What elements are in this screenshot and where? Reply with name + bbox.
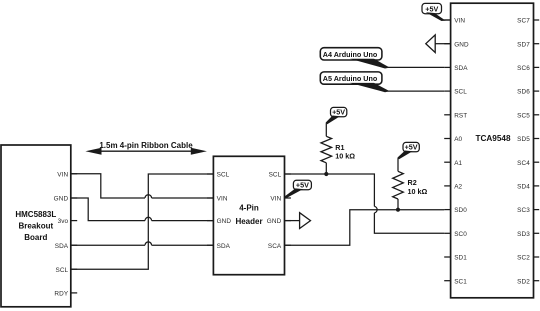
+5V power flag at TCA9548 VIN (422, 3, 446, 21)
svg-text:SD1: SD1 (454, 255, 467, 262)
pin RDY (HMC5883L) (54, 291, 77, 298)
wire hop on GND wire over SCL vertical (145, 217, 152, 220)
svg-text:10 kΩ: 10 kΩ (408, 187, 428, 196)
svg-text:TCA9548: TCA9548 (475, 134, 510, 143)
+5V power flag at R2 (397, 142, 419, 159)
pin SD0 left (TCA9548) (444, 207, 467, 214)
ground arrow at header GND (285, 213, 311, 229)
pin SD3 right (TCA9548) (517, 231, 539, 238)
+5V power flag at header VIN (284, 180, 311, 198)
svg-text:SDA: SDA (217, 243, 231, 250)
pin SCA right (4-pin header) (268, 243, 291, 250)
pin VIN (HMC5883L) (57, 171, 77, 178)
svg-text:A1: A1 (454, 160, 462, 167)
4-pin header title (235, 204, 262, 227)
ground arrow at TCA9548 GND (426, 35, 451, 53)
svg-text:3vo: 3vo (58, 218, 69, 225)
svg-text:SD6: SD6 (517, 89, 530, 96)
svg-text:+5V: +5V (332, 108, 345, 117)
svg-text:SC3: SC3 (517, 207, 530, 214)
pin 3vo (HMC5883L) (58, 218, 78, 225)
pin GND right (4-pin header) (267, 218, 291, 225)
pin RST left (TCA9548) (444, 112, 467, 119)
svg-text:SD4: SD4 (517, 184, 530, 191)
svg-text:Header: Header (235, 217, 262, 226)
svg-text:VIN: VIN (217, 196, 228, 203)
pin SC1 left (TCA9548) (444, 278, 467, 285)
wire hop on VIN wire over SCL vertical (145, 195, 152, 198)
net flag A4 Arduino Uno (SDA) (320, 48, 390, 69)
wire +5V flag to TCA9548 VIN (443, 19, 451, 21)
svg-text:+5V: +5V (405, 143, 418, 152)
junction dot R2 on SD0 net (396, 208, 400, 212)
svg-text:Breakout: Breakout (18, 222, 53, 231)
svg-text:RST: RST (454, 112, 467, 119)
HMC5883L breakout board body (1, 145, 71, 307)
wire hop on SDA wire over SCL vertical (145, 242, 152, 245)
pin SC7 right (TCA9548) (517, 18, 539, 25)
svg-text:GND: GND (267, 218, 282, 225)
svg-text:RDY: RDY (54, 291, 68, 298)
net flag A5 Arduino Uno (SCL) (320, 72, 390, 92)
pin SD4 right (TCA9548) (517, 184, 539, 191)
pin SC2 right (TCA9548) (517, 255, 539, 262)
pin SD5 right (TCA9548) (517, 136, 539, 143)
svg-text:10 kΩ: 10 kΩ (335, 151, 355, 160)
pin SDA left (TCA9548) (444, 65, 468, 72)
resistor R2 10 kOhm (393, 158, 404, 210)
ribbon cable dimension arrow (85, 148, 206, 155)
svg-text:R2: R2 (408, 178, 417, 187)
pin SCL left (TCA9548) (444, 89, 467, 96)
wire A4 flag to TCA9548 SDA (388, 66, 445, 68)
svg-text:VIN: VIN (454, 18, 465, 25)
svg-text:A4 Arduino Uno: A4 Arduino Uno (323, 50, 378, 59)
pin VIN right (4-pin header) (270, 196, 291, 203)
svg-text:A2: A2 (454, 184, 462, 191)
svg-text:SC1: SC1 (454, 278, 467, 285)
resistor R1 value label (335, 143, 355, 161)
wire header SCA to TCA9548 SD0 (with R2 pullup tap) (285, 210, 445, 246)
svg-text:1.5m 4-pin Ribbon Cable: 1.5m 4-pin Ribbon Cable (99, 141, 193, 150)
svg-text:SCL: SCL (269, 172, 282, 179)
svg-text:SCL: SCL (454, 89, 467, 96)
svg-text:SCA: SCA (268, 243, 282, 250)
pin VIN left (TCA9548) (444, 18, 465, 25)
pin GND (HMC5883L) (54, 196, 78, 203)
svg-text:GND: GND (54, 196, 69, 203)
pin SC0 left (TCA9548) (444, 231, 467, 238)
junction dot R1 on SCL net (324, 172, 328, 176)
wire GND: breakout GND to header GND (71, 198, 214, 221)
svg-text:SC5: SC5 (517, 112, 530, 119)
HMC5883L breakout board title (15, 210, 56, 242)
svg-text:SD3: SD3 (517, 231, 530, 238)
svg-text:VIN: VIN (270, 196, 281, 203)
svg-text:4-Pin: 4-Pin (239, 204, 259, 213)
TCA9548 multiplexer body (451, 3, 534, 298)
svg-text:SDA: SDA (454, 65, 468, 72)
svg-text:SD2: SD2 (517, 278, 530, 285)
pin SD1 left (TCA9548) (444, 255, 467, 262)
pin SC6 right (TCA9548) (517, 65, 539, 72)
pin A0 left (TCA9548) (444, 136, 462, 143)
pin GND left (TCA9548) (444, 41, 469, 48)
resistor R1 10 kOhm (321, 123, 332, 174)
+5V power flag at R1 (326, 107, 347, 124)
svg-text:GND: GND (217, 218, 232, 225)
pin SCL right (4-pin header) (269, 172, 291, 179)
svg-text:SD5: SD5 (517, 136, 530, 143)
svg-text:SDA: SDA (55, 243, 69, 250)
pin SD6 right (TCA9548) (517, 89, 539, 96)
pin GND left (4-pin header) (207, 218, 231, 225)
svg-text:SC7: SC7 (517, 18, 530, 25)
resistor R2 value label (408, 178, 428, 196)
svg-text:HMC5883L: HMC5883L (15, 210, 56, 219)
wire VIN: breakout VIN to header VIN (71, 174, 214, 198)
svg-text:SC0: SC0 (454, 231, 467, 238)
svg-text:SC2: SC2 (517, 255, 530, 262)
wire header SCL to TCA9548 SC0 (with R1 pullup tap) (285, 174, 445, 233)
svg-text:VIN: VIN (57, 171, 68, 178)
pin SC4 right (TCA9548) (517, 160, 539, 167)
pin VIN left (4-pin header) (207, 196, 228, 203)
svg-text:SC4: SC4 (517, 160, 530, 167)
pin SD2 right (TCA9548) (517, 278, 539, 285)
svg-text:A0: A0 (454, 136, 462, 143)
svg-text:SD0: SD0 (454, 207, 467, 214)
svg-text:+5V: +5V (296, 181, 309, 190)
svg-text:SCL: SCL (217, 172, 230, 179)
svg-text:+5V: +5V (425, 5, 438, 14)
svg-text:A5 Arduino Uno: A5 Arduino Uno (323, 74, 378, 83)
svg-text:SCL: SCL (55, 267, 68, 274)
pin A2 left (TCA9548) (444, 184, 462, 191)
pin SC3 right (TCA9548) (517, 207, 539, 214)
pin SC5 right (TCA9548) (517, 112, 539, 119)
svg-text:SD7: SD7 (517, 41, 530, 48)
pin A1 left (TCA9548) (444, 160, 462, 167)
4-pin header body (213, 156, 284, 274)
wire SCL: breakout SCL up to header SCL (71, 174, 214, 269)
pin SD7 right (TCA9548) (517, 41, 539, 48)
pin SDA (HMC5883L) (55, 243, 77, 250)
svg-text:GND: GND (454, 41, 469, 48)
pin SCL (HMC5883L) (55, 267, 77, 274)
svg-text:Board: Board (24, 233, 47, 242)
wire hop on SC0 vertical over SD0 wire (374, 206, 377, 213)
pin SDA left (4-pin header) (207, 243, 231, 250)
wire SDA: breakout SDA to header SDA (71, 244, 214, 246)
wire A5 flag to TCA9548 SCL (388, 90, 445, 92)
pin SCL left (4-pin header) (207, 172, 230, 179)
svg-text:SC6: SC6 (517, 65, 530, 72)
